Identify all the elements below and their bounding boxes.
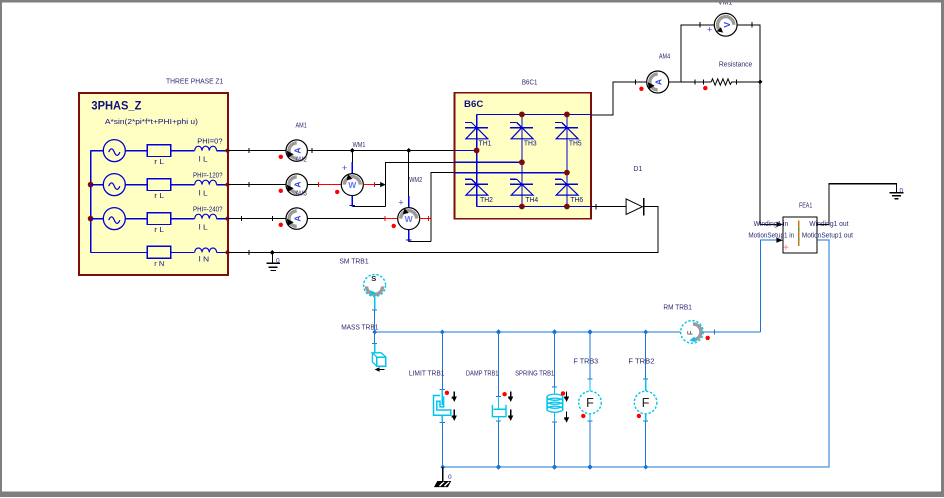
node phase C	[564, 170, 570, 176]
wire source-resistor row1	[125, 150, 147, 152]
svg-text:W: W	[405, 214, 414, 224]
svg-text:l L: l L	[199, 190, 208, 197]
wire bridge leg 2	[521, 114, 523, 206]
pin arrow MotionSetup1 in	[776, 238, 783, 243]
svg-text:A: A	[654, 79, 664, 85]
svg-text:LIMIT TRB1: LIMIT TRB1	[409, 370, 445, 377]
wire WM1 bottom stub	[351, 196, 353, 207]
thyristor TH3	[510, 122, 517, 124]
svg-text:Winding1 in: Winding1 in	[754, 221, 789, 228]
svg-text:Resistance: Resistance	[719, 61, 752, 68]
wire resistor-inductor row3	[171, 218, 195, 220]
svg-text:AM1: AM1	[296, 122, 307, 129]
mass cube	[377, 357, 386, 366]
svg-text:PHI=-240?: PHI=-240?	[193, 206, 223, 213]
node WM1 tap	[350, 148, 355, 153]
svg-text:r L: r L	[154, 159, 164, 166]
pin arrow Winding1 in	[776, 222, 783, 227]
wire inductor-edge row2	[217, 184, 228, 186]
thyristor TH6	[555, 178, 562, 180]
node bottom bus TH6	[564, 204, 570, 210]
wire bridge top bus	[477, 113, 591, 115]
wire D1 to neutral	[228, 207, 658, 253]
svg-text:+: +	[707, 25, 712, 35]
node bus-phase2	[88, 182, 94, 188]
wire Winding1 out to ground	[817, 184, 897, 225]
node mech bus x645	[643, 329, 648, 334]
svg-text:F: F	[687, 331, 694, 335]
svg-text:SPRING TRB1: SPRING TRB1	[515, 370, 554, 377]
ac source V3	[91, 218, 104, 220]
node mech bus x498	[496, 329, 501, 334]
frame top	[0, 0, 944, 3]
resistor r N	[147, 246, 171, 258]
wire lN-edge	[217, 251, 228, 253]
wire WM2 voltage tap	[408, 151, 410, 196]
svg-text:MotionSetup1 in: MotionSetup1 in	[748, 233, 794, 240]
svg-text:DAMP TRB1: DAMP TRB1	[466, 370, 499, 377]
node mech bus x442	[440, 329, 445, 334]
thyristor TH2	[465, 178, 472, 180]
svg-text:l L: l L	[199, 224, 208, 231]
svg-text:3PHAS_Z: 3PHAS_Z	[91, 101, 141, 113]
svg-text:W: W	[348, 180, 357, 190]
block B6C	[455, 93, 592, 219]
svg-text:TH6: TH6	[570, 197, 583, 204]
node top bus TH3	[519, 112, 525, 118]
wire MotionSetup1 in blue	[760, 240, 776, 332]
wire source-resistor row2	[125, 184, 147, 186]
pin row2	[226, 183, 230, 187]
ground neutral 0	[271, 252, 273, 263]
wire WM2 out vertical	[431, 173, 455, 242]
node mass junction	[372, 329, 377, 334]
svg-text:0: 0	[448, 474, 452, 481]
svg-text:PHI=0?: PHI=0?	[197, 138, 222, 145]
wire WM2 bottom stub	[408, 230, 410, 242]
svg-text:A*sin(2*pi*f*t+PHI+phi u): A*sin(2*pi*f*t+PHI+phi u)	[105, 119, 198, 126]
wire source-resistor row3	[125, 218, 147, 220]
wire WM1 red out	[363, 184, 375, 186]
wire WM1 out vertical	[386, 162, 455, 206]
wire left bus	[90, 151, 92, 253]
block 3PHAS_Z	[79, 93, 228, 275]
svg-text:MASS TRB1: MASS TRB1	[341, 325, 378, 332]
svg-text:TH4: TH4	[525, 197, 538, 204]
wire bridge phase C bus	[455, 172, 567, 174]
neutral branch	[91, 251, 148, 253]
svg-text:r L: r L	[154, 227, 164, 234]
inductor l L row1	[195, 146, 217, 150]
wire damp branch	[498, 332, 500, 397]
svg-text:THREE PHASE Z1: THREE PHASE Z1	[166, 79, 223, 86]
node phase A	[474, 148, 480, 154]
svg-text:0: 0	[276, 258, 280, 265]
thyristor TH1	[465, 122, 472, 124]
svg-text:RM TRB1: RM TRB1	[663, 305, 692, 312]
svg-text:A: A	[293, 216, 303, 222]
svg-text:AM2: AM2	[296, 156, 307, 163]
svg-text:TH3: TH3	[524, 141, 537, 148]
junction arrow WM1 out	[380, 182, 385, 187]
thyristor TH5	[555, 122, 562, 124]
svg-text:A: A	[293, 148, 303, 154]
wire bus to mass	[374, 332, 376, 344]
svg-text:PHI=-120?: PHI=-120?	[193, 172, 223, 179]
frame left	[0, 0, 2, 492]
node bus-phase3	[88, 216, 94, 222]
wire bottom bus ticks	[496, 464, 501, 469]
svg-text:l N: l N	[199, 256, 209, 263]
svg-text:MotionSetup1 out: MotionSetup1 out	[802, 233, 853, 240]
svg-text:S: S	[371, 274, 376, 283]
pin neutral	[226, 250, 230, 254]
frame bottom	[0, 491, 944, 497]
ground right 0	[889, 192, 903, 194]
wire phase A row	[228, 150, 286, 152]
inductor l L row3	[195, 214, 217, 218]
frame overlay	[0, 0, 944, 3]
node neutral ground	[270, 250, 275, 255]
wire phase C row	[228, 218, 286, 220]
mass arrow	[378, 369, 385, 371]
wire mech bus	[375, 331, 681, 333]
svg-text:AM4: AM4	[659, 54, 670, 61]
wire spring branch	[554, 332, 556, 387]
svg-text:F: F	[642, 396, 650, 410]
svg-text:TH1: TH1	[479, 141, 492, 148]
node mech bus x590	[587, 329, 592, 334]
wire inductor-edge row1	[217, 150, 228, 152]
resistor r L row2	[147, 179, 171, 191]
node phase B	[519, 159, 525, 165]
thyristor TH4	[510, 178, 517, 180]
wire inductor-edge row3	[217, 218, 228, 220]
wire VM to right corner	[737, 25, 760, 82]
wire WM2 red out	[420, 218, 431, 220]
ac source V1	[91, 150, 104, 152]
node WM2 tap	[406, 148, 411, 153]
resistor r L row3	[147, 213, 171, 225]
svg-text:WM2: WM2	[409, 177, 422, 184]
wire rN-lN	[171, 251, 195, 253]
frame right	[941, 0, 944, 492]
wire bridge leg 1	[476, 114, 478, 206]
wire F TRB3 branch	[589, 332, 591, 379]
FEA1 winding strip	[798, 221, 800, 247]
wire phase B row	[228, 184, 286, 186]
wire SM to bus	[374, 296, 376, 309]
inductor l L row2	[195, 180, 217, 184]
svg-text:WM1: WM1	[353, 142, 366, 149]
wire resistor-inductor row1	[171, 150, 195, 152]
node bottom bus TH4	[519, 204, 525, 210]
svg-text:F TRB3: F TRB3	[574, 359, 599, 366]
wire limit branch	[441, 332, 443, 390]
wire WM2 red in	[385, 218, 398, 220]
ac source V2	[91, 184, 104, 186]
node resistor right	[758, 80, 763, 85]
wire WM1 voltage tap	[351, 151, 353, 162]
pin row1	[226, 149, 230, 153]
svg-text:SM TRB1: SM TRB1	[339, 259, 368, 266]
ammeter AM1	[286, 140, 307, 161]
pin row3	[226, 217, 230, 221]
wire bridge leg 3	[566, 114, 568, 206]
svg-text:F TRB2: F TRB2	[628, 359, 654, 366]
svg-text:B6C: B6C	[464, 99, 484, 109]
wire resistor-inductor row2	[171, 184, 195, 186]
svg-text:+: +	[342, 163, 347, 173]
node mech bus x554	[552, 329, 557, 334]
wire F TRB2 branch	[645, 332, 647, 379]
ground mechanical 0	[442, 467, 444, 482]
wire AM4 to junction	[669, 81, 711, 83]
svg-text:r L: r L	[154, 193, 164, 200]
wire bridge phase B bus	[455, 161, 522, 163]
wire VM branch up	[681, 25, 714, 82]
wire WM1 red in	[318, 184, 341, 186]
svg-text:+: +	[398, 198, 403, 208]
ammeter AM2	[286, 174, 307, 195]
wire MotionSetup1 out blue	[443, 240, 829, 467]
wire bridge out to AM4	[591, 82, 647, 115]
svg-text:AM3: AM3	[296, 190, 307, 197]
resistor r L row1	[147, 145, 171, 157]
svg-text:FEA1: FEA1	[799, 203, 812, 210]
svg-text:F: F	[586, 396, 594, 410]
node top bus TH5	[564, 112, 570, 118]
svg-text:l L: l L	[199, 156, 208, 163]
wire bridge phase A bus	[455, 149, 477, 151]
svg-text:D1: D1	[633, 166, 642, 173]
svg-text:TH2: TH2	[480, 197, 493, 204]
svg-text:TH5: TH5	[569, 141, 582, 148]
svg-text:V: V	[722, 22, 732, 28]
FEA1 plus mark	[783, 245, 788, 250]
ammeter AM3	[286, 208, 307, 229]
svg-text:0: 0	[900, 188, 904, 195]
inductor l N	[195, 248, 217, 252]
wire bridge bottom bus	[477, 206, 591, 208]
svg-text:r N: r N	[154, 261, 164, 268]
wire down to FEA Winding1 in	[760, 82, 776, 224]
wire mech corner dot	[440, 464, 445, 469]
svg-text:A: A	[293, 182, 303, 188]
svg-text:B6C1: B6C1	[522, 80, 538, 87]
